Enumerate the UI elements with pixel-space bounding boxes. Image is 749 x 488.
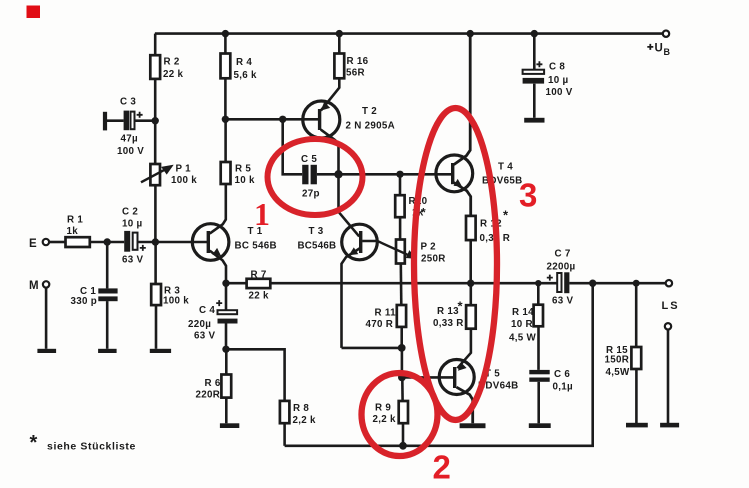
resistor R15	[631, 347, 641, 369]
svg-text:27p: 27p	[302, 189, 320, 200]
terminal +UB	[663, 31, 669, 37]
resistor R5	[221, 162, 231, 184]
svg-text:10 R: 10 R	[511, 319, 533, 330]
wire junction to R6	[225, 349, 228, 374]
red annotation ellipse 3 around output stage	[414, 108, 497, 420]
resistor R4	[221, 54, 231, 79]
resistor R12	[466, 216, 476, 240]
wire output line to C7	[471, 282, 558, 285]
terminal M	[43, 281, 49, 287]
wire feedback line R7 left segment	[226, 282, 247, 285]
wire C5 left branch down	[283, 119, 303, 174]
ground bar under C1	[98, 349, 117, 353]
wire R1 to C2 with junction	[90, 241, 124, 244]
plus sign C7	[547, 275, 553, 281]
plus sign C4	[216, 300, 222, 306]
potentiometer P1 body	[150, 164, 160, 185]
svg-text:R 7: R 7	[251, 269, 267, 280]
wire R10 bottom to P2 top	[399, 217, 402, 239]
svg-text:56R: 56R	[346, 67, 365, 78]
transistor T5 BDV64B	[439, 360, 474, 395]
svg-text:10 k: 10 k	[235, 175, 256, 186]
resistor R8	[280, 401, 290, 423]
wire R10 junction to R10 top	[399, 174, 402, 195]
svg-text:2: 2	[433, 449, 451, 486]
potentiometer P1 arrow	[141, 165, 173, 182]
plus sign C2	[140, 245, 146, 251]
svg-text:0,33 R: 0,33 R	[433, 318, 464, 329]
red annotation ellipse 2 around R9	[362, 373, 438, 456]
wire R3 bottom to ground	[155, 305, 158, 349]
node R10 top	[396, 171, 403, 178]
wire R8 top to C4 junction	[226, 349, 285, 401]
node rail-R4	[222, 30, 229, 37]
svg-text:R 5: R 5	[235, 164, 251, 175]
wire T4 emitter to R12	[454, 183, 471, 216]
node C5-T2 collector	[334, 170, 342, 178]
svg-text:U: U	[655, 43, 664, 55]
node output-return	[589, 280, 596, 287]
wire C7 to LS terminal	[569, 282, 665, 285]
svg-text:3: 3	[519, 177, 537, 214]
svg-text:10 µ: 10 µ	[548, 75, 569, 86]
wire R16 bottom to T2 emitter	[321, 78, 339, 110]
wire LS lower terminal stem	[667, 330, 670, 423]
node C2-column	[152, 238, 159, 245]
resistor R14	[534, 305, 543, 327]
wire P1 bottom to C2 junction	[154, 185, 157, 242]
red annotation square top-left	[27, 6, 41, 19]
svg-text:63 V: 63 V	[552, 295, 574, 306]
wire C3 left lead	[107, 119, 124, 122]
capacitor C8 plates (electrolytic, + top)	[523, 70, 545, 84]
node R4-R5-T2base	[222, 116, 229, 123]
svg-text:C 7: C 7	[555, 249, 571, 260]
svg-text:LS: LS	[662, 300, 680, 312]
wire feedback line R7 to output node	[270, 282, 470, 285]
potentiometer P2 body	[396, 240, 405, 264]
wire C2 to T1 base	[138, 241, 208, 244]
svg-text:0,1µ: 0,1µ	[553, 382, 574, 393]
resistor R13	[466, 305, 476, 329]
terminal LS upper	[666, 280, 672, 286]
svg-text:*: *	[421, 206, 426, 220]
resistor R16	[334, 54, 344, 79]
node rail-T4	[467, 30, 474, 37]
transistor T2 2N2905A	[303, 101, 340, 138]
svg-text:4,5W: 4,5W	[606, 367, 631, 378]
resistor R9	[399, 401, 408, 423]
svg-text:C 8: C 8	[549, 62, 565, 73]
node R11 bottom	[398, 344, 406, 352]
terminal E	[43, 239, 49, 245]
wire rail to R4	[224, 34, 227, 54]
svg-text:4,5 W: 4,5 W	[509, 333, 537, 344]
wire C2 junction to R3 top	[154, 242, 157, 284]
wire output down-and-left return to R8	[285, 283, 593, 446]
wire R2 bottom to C3 junction	[154, 79, 157, 121]
wire output node to R13	[469, 283, 472, 305]
wire left column: rail to R2 top	[154, 34, 157, 56]
node R1-C1	[104, 238, 111, 245]
svg-text:C 2: C 2	[122, 206, 138, 217]
node T1 emitter-R7	[222, 280, 229, 287]
wire C1 branch down	[106, 242, 109, 288]
svg-text:100 k: 100 k	[163, 296, 189, 307]
svg-text:100 V: 100 V	[117, 146, 144, 157]
node output-R14	[535, 280, 541, 286]
wire R14 bottom to C6	[537, 326, 540, 370]
capacitor C4 plates (electrolytic, + top)	[218, 310, 238, 323]
ground bar under R3	[150, 349, 171, 353]
potentiometer P2 wiper arrowhead	[407, 251, 416, 258]
resistor R11	[397, 305, 406, 327]
terminal LS lower	[665, 323, 671, 329]
svg-text:R 2: R 2	[164, 57, 180, 68]
capacitor C6 plates	[529, 370, 549, 382]
svg-text:470 R: 470 R	[366, 319, 394, 330]
resistor R10	[395, 195, 404, 217]
wire R6 bottom to ground	[225, 398, 228, 424]
node output-R15	[633, 280, 640, 287]
wire junction to R5 top	[224, 119, 227, 162]
ground bar under M	[37, 349, 56, 353]
capacitor C2 plates (electrolytic, + right)	[124, 231, 137, 252]
wire junction to T5 base junction	[401, 348, 404, 378]
capacitor C5 plates	[302, 165, 317, 185]
wire C3 right lead to junction	[135, 119, 155, 122]
wire T3 collector from C5 junction	[339, 174, 360, 236]
svg-text:M: M	[29, 280, 39, 292]
wire R9 bottom to bottom rail junction	[402, 423, 405, 446]
wire C4 bottom to junction	[225, 324, 228, 350]
wire R8 bottom lead	[283, 423, 286, 446]
node rail-C8	[531, 30, 538, 37]
svg-text:R 9: R 9	[375, 402, 391, 413]
plus sign C8	[536, 61, 542, 67]
ground bar under T5	[460, 423, 486, 428]
svg-text:T 3: T 3	[309, 226, 324, 237]
transistor T1 BC546B	[192, 224, 229, 261]
node C5 branch	[279, 116, 286, 123]
svg-text:330 p: 330 p	[71, 296, 98, 307]
wire R13 bottom to T5 emitter	[457, 329, 471, 369]
wire T3 emitter down-left	[342, 248, 362, 348]
wire T2 collector down to C5 junction	[321, 130, 339, 175]
resistor R1	[66, 237, 90, 247]
svg-text:2,2 k: 2,2 k	[373, 414, 397, 425]
ground bar under R6	[220, 423, 239, 428]
svg-text:R 11: R 11	[375, 308, 397, 319]
wire top supply rail	[155, 32, 663, 35]
svg-text:1: 1	[254, 196, 270, 232]
node T5 base	[398, 374, 406, 382]
ground bar under LS	[660, 423, 679, 428]
svg-text:B: B	[664, 47, 671, 57]
node output-T4T5	[467, 280, 474, 287]
svg-text:100 V: 100 V	[546, 87, 573, 98]
wire R5 bottom to T1 collector bend	[210, 184, 226, 234]
wire rail to C8	[533, 34, 536, 70]
svg-text:63 V: 63 V	[194, 331, 216, 342]
svg-text:siehe Stückliste: siehe Stückliste	[47, 441, 136, 453]
svg-text:P 1: P 1	[176, 164, 192, 175]
svg-text:22 k: 22 k	[249, 290, 270, 301]
svg-text:*: *	[30, 432, 38, 454]
wire C3 junction to P1 top	[154, 121, 157, 164]
ground bar under C6	[529, 423, 551, 428]
node C3-column	[152, 117, 159, 124]
wire R12 bottom to output node	[469, 240, 472, 283]
svg-text:R 13: R 13	[437, 306, 459, 317]
ground bar under C8	[524, 118, 544, 123]
svg-text:1k: 1k	[67, 226, 79, 237]
wire R4 bottom to base-line junction	[224, 78, 227, 119]
wire R15 junction down	[635, 283, 638, 347]
svg-text:T 2: T 2	[362, 106, 377, 117]
svg-text:C 4: C 4	[199, 305, 215, 316]
ground bar under R15	[626, 423, 648, 428]
plus sign UB	[647, 44, 653, 50]
svg-text:63 V: 63 V	[122, 254, 144, 265]
svg-text:250R: 250R	[421, 254, 446, 265]
wire E terminal to R1	[50, 241, 66, 244]
svg-text:P 2: P 2	[421, 242, 437, 253]
svg-text:5,6 k: 5,6 k	[234, 70, 258, 81]
wire C5 right lead to junction	[317, 173, 339, 176]
wire rail to R16	[338, 34, 341, 54]
capacitor C7 plates (electrolytic, + left)	[557, 272, 569, 293]
svg-text:R 1: R 1	[67, 215, 83, 226]
capacitor C3 plates (electrolytic, + right) with left end bar	[103, 111, 135, 131]
wire M terminal stem	[45, 288, 48, 349]
red annotation ellipse 1 around C5	[268, 139, 363, 215]
potentiometer P2 wiper arm from T3 base	[362, 241, 410, 256]
wire C6 bottom to ground	[537, 382, 540, 424]
wire R15 bottom to ground	[635, 369, 638, 423]
node C4-R6-R8	[222, 346, 229, 353]
wire T3 emitter to R11 bottom junction	[342, 347, 402, 350]
svg-text:100 k: 100 k	[171, 175, 197, 186]
svg-text:C 5: C 5	[301, 154, 317, 165]
resistor R3	[151, 284, 161, 305]
svg-text:2,2 k: 2,2 k	[293, 415, 317, 426]
resistor R2	[150, 55, 160, 79]
wire rail down to T4 collector	[454, 34, 470, 165]
wire T5 base line	[402, 376, 453, 379]
svg-text:47µ: 47µ	[121, 134, 138, 145]
svg-text:R 14: R 14	[512, 307, 534, 318]
svg-text:220R: 220R	[196, 390, 221, 401]
svg-text:C 6: C 6	[554, 369, 570, 380]
svg-text:BC546B: BC546B	[298, 241, 337, 252]
svg-text:BC 546B: BC 546B	[235, 240, 277, 251]
svg-text:R 4: R 4	[236, 57, 252, 68]
node rail-R16	[336, 30, 343, 37]
svg-text:10 µ: 10 µ	[122, 219, 143, 230]
svg-text:2200µ: 2200µ	[547, 262, 576, 273]
wire T5 collector to ground	[457, 387, 473, 423]
svg-text:220µ: 220µ	[188, 319, 211, 330]
svg-text:*: *	[458, 299, 464, 314]
svg-text:*: *	[503, 208, 509, 223]
svg-text:E: E	[29, 238, 37, 250]
plus sign C3	[137, 112, 143, 118]
resistor R7	[247, 279, 271, 288]
svg-text:22 k: 22 k	[163, 69, 184, 80]
wire T2 base line from R4 junction	[225, 118, 318, 121]
wire P2 bottom to R11 top	[399, 264, 402, 306]
wire T1 emitter column through C4	[225, 283, 228, 310]
wire R14 junction down	[537, 283, 540, 305]
svg-text:R 6: R 6	[205, 378, 221, 389]
wire C8 bottom to ground	[533, 84, 536, 118]
wire R11 bottom to junction	[400, 327, 403, 348]
svg-text:C 3: C 3	[120, 97, 136, 108]
wire C1 bottom to ground	[106, 301, 109, 349]
capacitor C1 plates	[98, 288, 117, 301]
transistor T3 BC546B (mirrored)	[342, 224, 378, 260]
resistor R6	[221, 375, 231, 398]
svg-text:2 N 2905A: 2 N 2905A	[346, 121, 396, 132]
wire C5 junction to R10 junction to T4 base	[339, 173, 453, 176]
node R9 bottom rail	[399, 442, 407, 450]
svg-text:T 4: T 4	[498, 162, 513, 173]
svg-text:R 16: R 16	[347, 56, 369, 67]
svg-text:150R: 150R	[605, 355, 630, 366]
wire T1 emitter to junction	[210, 251, 226, 284]
svg-text:R 8: R 8	[293, 403, 309, 414]
wire T5 base junction to R9	[401, 377, 404, 401]
transistor T4 BDV65B	[436, 155, 473, 192]
